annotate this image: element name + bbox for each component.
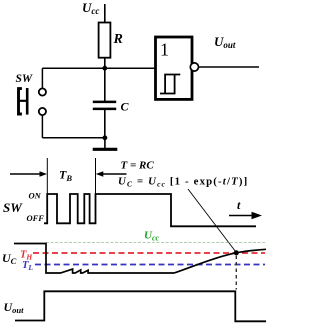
switch SW bridge bar	[26, 88, 29, 115]
switch SW upper contact	[39, 88, 46, 95]
wire SW bottom	[41, 115, 43, 138]
capacitor C top plate	[93, 101, 116, 104]
switch SW lower contact	[39, 108, 46, 115]
switch SW button cap	[19, 89, 22, 114]
resistor R	[99, 23, 111, 58]
UC curve	[14, 244, 266, 274]
node junction top	[102, 66, 107, 71]
svg-text:C: C	[121, 100, 130, 114]
svg-text:T = RC: T = RC	[121, 160, 155, 172]
svg-text:TB: TB	[59, 168, 72, 184]
svg-text:Uout: Uout	[214, 34, 236, 50]
arrow left	[10, 171, 47, 176]
marker line right	[95, 158, 97, 194]
pointer line	[188, 189, 236, 253]
hysteresis symbol	[160, 75, 180, 94]
wire gate output	[199, 66, 260, 68]
marker line left	[46, 158, 48, 194]
switch SW shaft	[19, 100, 27, 102]
svg-text:Ucc: Ucc	[82, 0, 99, 16]
wire capacitor to bottom node	[104, 110, 106, 138]
supply level line Ucc	[46, 242, 266, 244]
svg-text:UC = Ucc [1 - exp(-t/T)]: UC = Ucc [1 - exp(-t/T)]	[118, 176, 248, 189]
svg-text:1: 1	[160, 40, 169, 60]
wire Ucc to resistor	[104, 4, 106, 23]
svg-text:SW: SW	[16, 73, 33, 85]
node junction bottom	[103, 135, 108, 140]
svg-text:TL: TL	[22, 260, 33, 272]
time axis arrow	[229, 212, 262, 219]
svg-text:UC: UC	[2, 251, 17, 266]
svg-text:t: t	[237, 198, 241, 212]
svg-text:SW: SW	[3, 200, 23, 215]
wire node to capacitor	[104, 68, 106, 101]
capacitor C bottom plate	[93, 108, 116, 111]
dashed drop line	[235, 256, 237, 290]
wire main horizontal node	[42, 67, 155, 69]
threshold line TL	[35, 264, 265, 266]
ground	[93, 148, 118, 151]
schmitt trigger U1 box	[156, 37, 193, 99]
wire to ground	[104, 138, 106, 148]
svg-text:ON: ON	[29, 191, 42, 201]
svg-text:Uout: Uout	[4, 300, 25, 315]
svg-text:Ucc: Ucc	[144, 230, 160, 243]
output bubble	[190, 63, 198, 71]
wire bottom horizontal	[42, 137, 105, 139]
Uout waveform	[15, 291, 266, 321]
threshold line TH	[33, 252, 265, 254]
operating point dot	[234, 250, 239, 255]
wire resistor to node	[104, 58, 106, 68]
svg-text:OFF: OFF	[27, 213, 45, 223]
wire SW top	[41, 68, 43, 88]
svg-text:R: R	[113, 32, 123, 47]
SW waveform	[44, 194, 256, 226]
arrow right	[96, 171, 127, 176]
